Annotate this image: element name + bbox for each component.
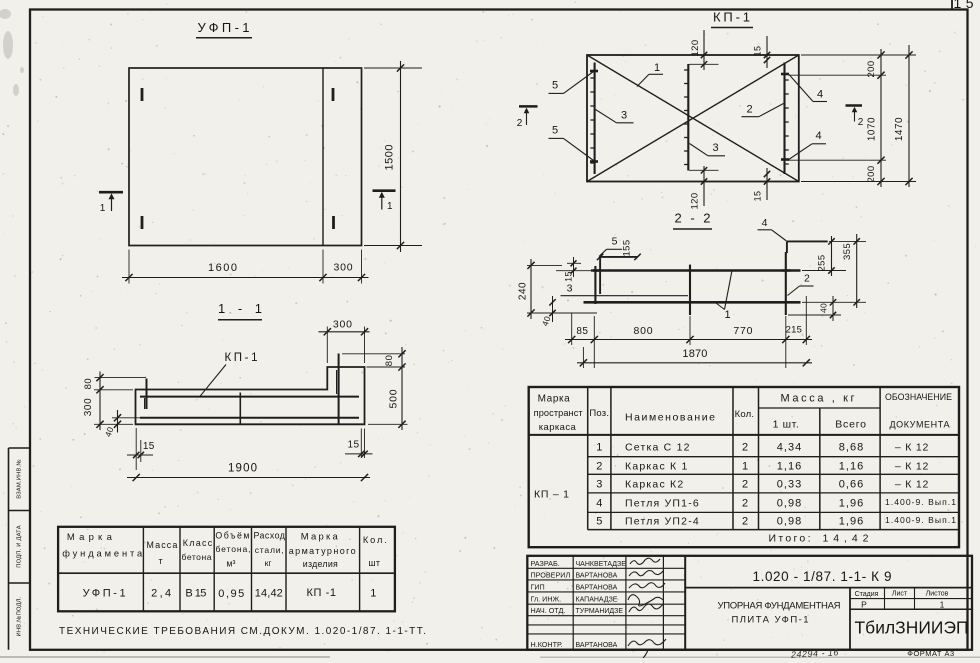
svg-text:ФОРМАТ А3: ФОРМАТ А3 [907,649,954,658]
svg-text:0,33: 0,33 [777,479,802,491]
svg-text:Масса , кг: Масса , кг [781,393,855,405]
svg-text:500: 500 [388,389,400,409]
svg-text:– К 12: – К 12 [895,479,929,491]
svg-text:2: 2 [742,516,748,528]
svg-text:80: 80 [384,355,395,367]
svg-text:Листов: Листов [926,591,949,598]
svg-text:5: 5 [596,516,602,528]
svg-text:2: 2 [517,118,523,129]
svg-text:Р: Р [861,600,867,610]
svg-text:3: 3 [621,110,627,122]
svg-text:255: 255 [817,254,828,271]
svg-text:1: 1 [940,600,945,610]
svg-text:УФП-1: УФП-1 [198,20,250,35]
svg-text:4: 4 [817,89,823,101]
svg-text:15: 15 [348,439,360,450]
svg-text:м³: м³ [226,559,235,569]
svg-text:300: 300 [333,319,353,331]
svg-text:1: 1 [387,201,393,212]
svg-text:200: 200 [866,165,877,182]
svg-text:1: 1 [596,442,602,454]
svg-text:770: 770 [733,325,753,337]
svg-text:пространст: пространст [534,408,584,418]
svg-text:ВАРТАНОВА: ВАРТАНОВА [576,642,618,649]
svg-text:120: 120 [690,39,701,56]
svg-text:80: 80 [83,378,94,390]
svg-text:Марка: Марка [301,532,339,543]
svg-text:155: 155 [622,239,633,256]
svg-text:Петля УП1-6: Петля УП1-6 [625,498,700,510]
svg-text:1070: 1070 [867,117,878,141]
svg-text:1: 1 [100,203,106,214]
svg-text:Наименование: Наименование [625,412,715,424]
svg-text:0,66: 0,66 [839,479,864,491]
svg-text:бетона,: бетона, [216,544,251,554]
svg-text:1470: 1470 [894,117,905,141]
svg-text:15: 15 [143,441,155,452]
svg-text:Всего: Всего [835,419,867,431]
svg-text:1,16: 1,16 [777,461,802,473]
svg-text:Н.КОНТР.: Н.КОНТР. [531,640,563,649]
svg-text:5: 5 [612,236,618,248]
svg-text:кг: кг [265,558,272,568]
svg-text:ВАРТАНОВА: ВАРТАНОВА [576,572,618,579]
svg-text:ПОДП. И ДАТА: ПОДП. И ДАТА [17,525,23,568]
svg-text:0,98: 0,98 [777,498,802,510]
svg-text:2: 2 [858,117,864,128]
svg-text:2: 2 [804,273,810,285]
svg-text:ВАРТАНОВА: ВАРТАНОВА [576,584,618,591]
svg-text:240: 240 [518,282,529,300]
svg-text:300: 300 [83,398,94,417]
svg-text:215: 215 [786,325,802,336]
svg-text:120: 120 [690,192,701,209]
svg-text:2: 2 [746,104,752,116]
svg-text:Масса: Масса [146,540,177,550]
svg-text:85: 85 [576,326,588,337]
svg-text:КП -1: КП -1 [307,587,337,599]
svg-text:1500: 1500 [384,145,396,171]
svg-text:КП – 1: КП – 1 [534,489,569,501]
svg-text:800: 800 [634,325,654,337]
svg-text:Сетка С 12: Сетка С 12 [625,442,691,454]
svg-text:В 15: В 15 [185,588,206,600]
svg-text:15: 15 [564,271,574,282]
svg-text:2 - 2: 2 - 2 [675,211,711,226]
svg-text:Расход: Расход [253,531,285,541]
svg-text:4: 4 [762,217,768,229]
svg-text:– К 12: – К 12 [895,442,929,454]
svg-text:1,96: 1,96 [839,516,864,528]
svg-text:Класс: Класс [183,538,213,548]
svg-text:ПРОВЕРИЛ: ПРОВЕРИЛ [531,570,571,579]
svg-text:ВЗАМ.ИНВ.№: ВЗАМ.ИНВ.№ [17,459,23,499]
svg-text:каркаса: каркаса [539,422,577,433]
svg-text:бетона: бетона [182,552,212,562]
svg-text:1.020 - 1/87. 1-1- К 9: 1.020 - 1/87. 1-1- К 9 [753,569,892,584]
svg-text:0,98: 0,98 [777,516,802,528]
svg-text:ГИП: ГИП [531,582,545,591]
svg-text:1.400-9. Вып.1: 1.400-9. Вып.1 [885,515,956,525]
svg-text:РАЗРАБ.: РАЗРАБ. [531,559,560,568]
svg-text:4: 4 [815,130,821,142]
svg-text:8,68: 8,68 [839,442,864,454]
svg-text:Стадия: Стадия [855,591,879,598]
svg-text:1: 1 [370,588,376,600]
svg-text:Поз.: Поз. [589,408,609,419]
svg-text:изделия: изделия [303,559,338,569]
svg-text:1600: 1600 [208,262,237,274]
svg-text:ДОКУМЕНТА: ДОКУМЕНТА [890,420,950,430]
svg-text:3: 3 [567,283,573,295]
svg-text:КАПАНАДЗЕ: КАПАНАДЗЕ [576,597,618,604]
svg-text:2: 2 [742,479,748,491]
svg-text:УФП-1: УФП-1 [83,588,126,600]
svg-text:Каркас К 1: Каркас К 1 [625,461,689,473]
svg-text:2: 2 [596,461,602,473]
svg-text:КП-1: КП-1 [225,352,258,364]
svg-text:2: 2 [742,442,748,454]
svg-text:1 - 1: 1 - 1 [218,301,262,316]
svg-text:1: 1 [654,62,660,74]
svg-text:Петля УП2-4: Петля УП2-4 [625,516,700,528]
svg-text:1,96: 1,96 [839,498,864,510]
svg-text:ТЕХНИЧЕСКИЕ ТРЕБОВАНИЯ СМ.ДОК: ТЕХНИЧЕСКИЕ ТРЕБОВАНИЯ СМ.ДОКУМ. 1.020-1… [59,626,426,637]
svg-text:0,95: 0,95 [218,588,244,600]
svg-text:355: 355 [842,243,853,260]
svg-text:5: 5 [552,125,558,137]
svg-text:Марка: Марка [538,394,571,405]
svg-text:арматурного: арматурного [289,546,356,556]
svg-text:2,4: 2,4 [151,588,171,600]
svg-text:ПЛИТА УФП-1: ПЛИТА УФП-1 [732,615,809,626]
svg-text:1900: 1900 [228,463,257,475]
svg-text:1 шт.: 1 шт. [773,419,800,431]
svg-text:Гл. ИНЖ.: Гл. ИНЖ. [531,595,562,604]
svg-text:Кол.: Кол. [735,409,755,420]
svg-text:Лист: Лист [892,591,908,598]
svg-text:шт: шт [368,558,380,568]
svg-text:300: 300 [334,262,354,274]
svg-text:УПОРНАЯ ФУНДАМЕНТНАЯ: УПОРНАЯ ФУНДАМЕНТНАЯ [718,601,841,612]
svg-text:1.400-9. Вып.1: 1.400-9. Вып.1 [885,497,956,507]
svg-text:2: 2 [742,498,748,510]
svg-text:ИНВ.№ПОДЛ.: ИНВ.№ПОДЛ. [17,596,23,636]
svg-text:15: 15 [753,46,763,57]
svg-text:Итого:: Итого: [769,533,811,545]
svg-text:т: т [158,556,162,566]
svg-text:4,34: 4,34 [777,442,802,454]
svg-text:стали,: стали, [255,545,284,555]
svg-text:Объём: Объём [215,531,249,541]
svg-text:3: 3 [712,142,718,154]
svg-text:НАЧ. ОТД.: НАЧ. ОТД. [531,606,566,615]
svg-text:4: 4 [596,498,602,510]
svg-text:3: 3 [596,479,602,491]
svg-text:24294 - 16: 24294 - 16 [790,647,840,658]
svg-text:ТУРМАНИДЗЕ: ТУРМАНИДЗЕ [576,608,624,615]
svg-text:1: 1 [742,461,748,473]
svg-text:КП-1: КП-1 [713,10,750,25]
svg-text:ТбилЗНИИЭП: ТбилЗНИИЭП [855,618,969,638]
svg-text:1,16: 1,16 [839,461,864,473]
svg-text:5: 5 [552,80,558,92]
svg-text:14,42: 14,42 [255,588,283,600]
svg-text:Марка: Марка [67,532,113,543]
svg-text:ОБОЗНАЧЕНИЕ: ОБОЗНАЧЕНИЕ [885,392,952,402]
svg-text:15: 15 [753,191,763,202]
svg-text:200: 200 [866,60,877,77]
svg-text:– К 12: – К 12 [895,461,929,473]
svg-text:1: 1 [724,309,730,321]
svg-text:1870: 1870 [682,348,707,360]
svg-text:ЧАНКВЕТАДЗЕ: ЧАНКВЕТАДЗЕ [576,561,627,568]
svg-text:Каркас К2: Каркас К2 [625,479,684,491]
svg-text:40: 40 [819,303,829,313]
